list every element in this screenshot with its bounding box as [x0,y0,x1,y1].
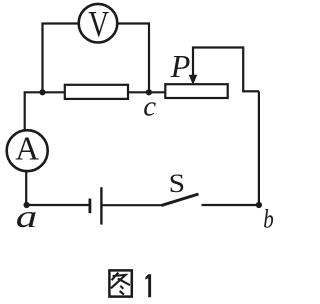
node b dot [256,202,262,208]
wire main row left (corner to resistor, with drop to ammeter) [25,92,65,130]
wire bottom: battery to switch left contact [101,204,162,206]
wire voltmeter branch right horizontal [117,22,149,24]
node a dot [24,202,30,208]
wire ammeter bottom to node a [25,171,27,205]
node junction dot (voltmeter left tap) [39,89,45,95]
wire main row middle (resistor to P rect) through node c [128,91,165,93]
battery positive plate (long) [100,187,102,224]
wire bottom: switch right contact to b [202,204,259,206]
svg-text:b: b [263,204,274,233]
svg-text:P: P [170,48,191,84]
wire wiper vertical down to arrow [192,46,194,77]
voltmeter U-V [79,4,118,43]
svg-text:a: a [16,198,38,234]
svg-text:S: S [169,169,185,198]
ammeter U-A [7,130,48,171]
wire jog vertical up [242,48,244,93]
battery negative plate (short) [89,199,92,214]
wire jog horizontal [243,90,259,92]
resistor R (fixed) [65,85,128,99]
svg-text:c: c [143,90,156,122]
caption CJK character tu (figure) drawn as paths [109,270,131,296]
wire right vertical b up to jog [258,91,260,205]
wire wiper top horizontal [193,46,244,48]
wire voltmeter branch right vertical down to node c [148,22,150,92]
caption numeral 1 [145,274,151,297]
wire bottom: a to battery [27,204,90,206]
switch S blade [162,194,199,205]
node c junction dot [146,89,152,95]
svg-text:V: V [88,4,109,45]
rheostat P body [165,84,227,98]
rheostat P wiper arrow head [189,75,197,85]
svg-text:A: A [15,130,39,167]
wire voltmeter branch left horizontal [41,22,78,24]
wire voltmeter branch left vertical [41,24,43,93]
